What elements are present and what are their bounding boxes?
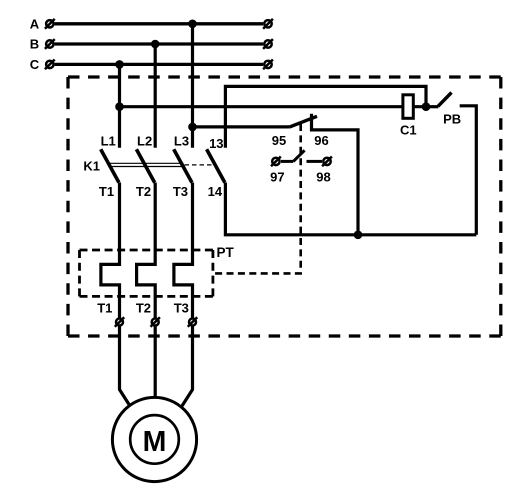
svg-text:B: B (30, 37, 39, 52)
svg-text:T3: T3 (173, 184, 188, 199)
svg-text:98: 98 (316, 169, 330, 184)
terminal T3 (188, 317, 197, 326)
overload contact 97-98 blade (293, 150, 304, 161)
wire T3 through heater to motor (174, 183, 193, 407)
contactor K1 pole 3 blade (174, 149, 192, 182)
terminal 97 (271, 157, 281, 167)
K1 linkage dashed tie to aux contact (185, 164, 217, 166)
wire control line to coil C1 (120, 105, 427, 108)
junction dot control tap on L1 (115, 102, 124, 111)
wire L1 drop from phase C (118, 64, 121, 147)
junction dot coil-PB node (422, 102, 431, 111)
svg-text:C: C (30, 57, 40, 72)
junction dot on phase C (115, 60, 124, 69)
contactor K1 pole 2 blade (136, 149, 154, 182)
svg-text:L1: L1 (101, 133, 116, 148)
wire aux contact 13 to node above coil (225, 86, 426, 147)
terminal C right (263, 60, 273, 70)
svg-text:C1: C1 (400, 122, 417, 137)
terminal C left (45, 60, 55, 70)
svg-text:T2: T2 (136, 184, 151, 199)
terminal 98 (322, 157, 332, 167)
wire T2 through heater to motor (137, 183, 156, 399)
K1 mechanical linkage double bar (110, 163, 184, 166)
contactor K1 aux 13-14 blade (207, 149, 225, 182)
wire overload branch from L3 to contact 95 (193, 125, 290, 128)
overload relay PT dashed box (80, 250, 213, 296)
svg-text:T1: T1 (99, 184, 114, 199)
svg-text:T1: T1 (97, 301, 112, 316)
junction dot overload tap on L3 (188, 123, 197, 132)
pushbutton PB blade (438, 93, 452, 107)
terminal B right (263, 39, 273, 49)
wire phase C (55, 63, 264, 66)
terminal A left (45, 19, 55, 29)
svg-text:PB: PB (443, 112, 461, 127)
svg-text:PT: PT (217, 245, 235, 260)
wire PB right lead down to rail (460, 106, 477, 235)
svg-text:13: 13 (209, 136, 223, 151)
overload contact 95-96 blade (289, 116, 317, 127)
svg-text:K1: K1 (83, 158, 100, 173)
wire 97 lead (281, 160, 293, 163)
svg-text:97: 97 (270, 169, 284, 184)
terminal A right (263, 19, 273, 29)
wire L2 drop from phase B (154, 44, 157, 148)
svg-text:95: 95 (272, 133, 286, 148)
coil C1 (403, 95, 413, 119)
junction dot on phase A (188, 20, 197, 29)
enclosure dashed boundary (68, 77, 501, 336)
svg-text:T2: T2 (136, 301, 151, 316)
terminal B left (45, 39, 55, 49)
svg-text:M: M (143, 426, 167, 458)
wire 14 to bottom control rail (225, 183, 476, 235)
motor inner circle (130, 415, 179, 464)
svg-text:14: 14 (208, 184, 223, 199)
overload trip linkage dashed (213, 124, 301, 273)
contactor K1 pole 1 blade (101, 149, 119, 182)
svg-text:L3: L3 (174, 133, 189, 148)
wire 98 lead (307, 160, 323, 163)
motor outer circle (112, 397, 196, 481)
terminal T1 (115, 317, 124, 326)
wire L3 drop from phase A (191, 24, 194, 148)
svg-text:96: 96 (314, 133, 328, 148)
pushbutton PB wire stub (426, 105, 438, 108)
svg-text:T3: T3 (174, 301, 189, 316)
wire 96 lead (312, 114, 359, 235)
svg-text:L2: L2 (137, 133, 152, 148)
wire phase B (55, 42, 264, 45)
svg-text:A: A (30, 17, 40, 32)
junction dot on phase B (151, 40, 160, 49)
junction dot bottom rail (354, 231, 363, 240)
terminal T2 (151, 317, 160, 326)
wire T1 through heater to motor (101, 183, 130, 407)
wire phase A (55, 22, 264, 25)
